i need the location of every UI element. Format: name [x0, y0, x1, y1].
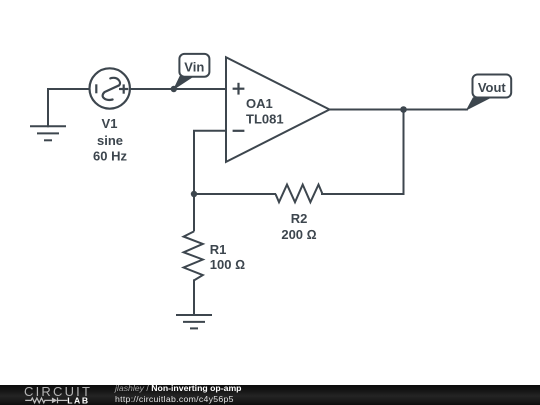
svg-text:LAB: LAB [67, 396, 89, 405]
label V1 value [93, 116, 127, 163]
svg-text:OA1: OA1 [246, 96, 273, 111]
node Vin flag [174, 54, 209, 89]
label R1 value [210, 242, 245, 272]
label R2 value [281, 211, 316, 242]
wire: feedback node to R2 left lead [194, 193, 275, 195]
svg-text:R2: R2 [291, 211, 308, 226]
svg-text:V1: V1 [102, 116, 118, 131]
op-amp OA1 plus input mark [233, 83, 245, 95]
wire: R1 bottom lead down to ground [193, 280, 195, 315]
wire: R2 right lead to corner and up to output node [322, 110, 404, 194]
voltage source V1 (sine) [90, 68, 130, 108]
footer text [115, 384, 241, 393]
ground G2 (below R1) [176, 315, 212, 328]
V1 minus mark [95, 84, 97, 93]
junction: feedback node at R1/R2 [191, 191, 197, 197]
CircuitLab logo [24, 385, 92, 398]
wire: op-amp output to Vout flag [330, 109, 467, 111]
svg-text:Vout: Vout [478, 80, 507, 95]
svg-text:100 Ω: 100 Ω [210, 257, 245, 272]
svg-text:R1: R1 [210, 242, 227, 257]
op-amp OA1 minus input mark [233, 130, 245, 132]
resistor R2 (horizontal zigzag) [276, 185, 323, 203]
svg-text:sine: sine [97, 133, 123, 148]
junction: Vin tap on input wire [171, 86, 177, 92]
svg-text:TL081: TL081 [246, 111, 284, 126]
svg-text:200 Ω: 200 Ω [281, 227, 316, 242]
wire: V1 positive terminal to op-amp non-inverting input [130, 88, 226, 90]
svg-text:Vin: Vin [184, 59, 204, 74]
node Vout flag [467, 75, 511, 110]
junction: output node [400, 106, 407, 113]
V1 plus mark [119, 88, 128, 90]
wire: V1 negative terminal to ground corner [48, 89, 90, 126]
footer bar [0, 385, 540, 405]
wire: inverting input stub and vertical to feedback node [194, 131, 226, 194]
op-amp OA1 triangle [226, 57, 330, 162]
svg-text:60 Hz: 60 Hz [93, 148, 127, 163]
label OA1 / TL081 [246, 96, 284, 127]
ground G1 (left, below V1) [30, 126, 66, 140]
V1 sine squiggle [103, 78, 120, 100]
resistor R1 (vertical zigzag, top lead from feedback node) [184, 194, 203, 280]
